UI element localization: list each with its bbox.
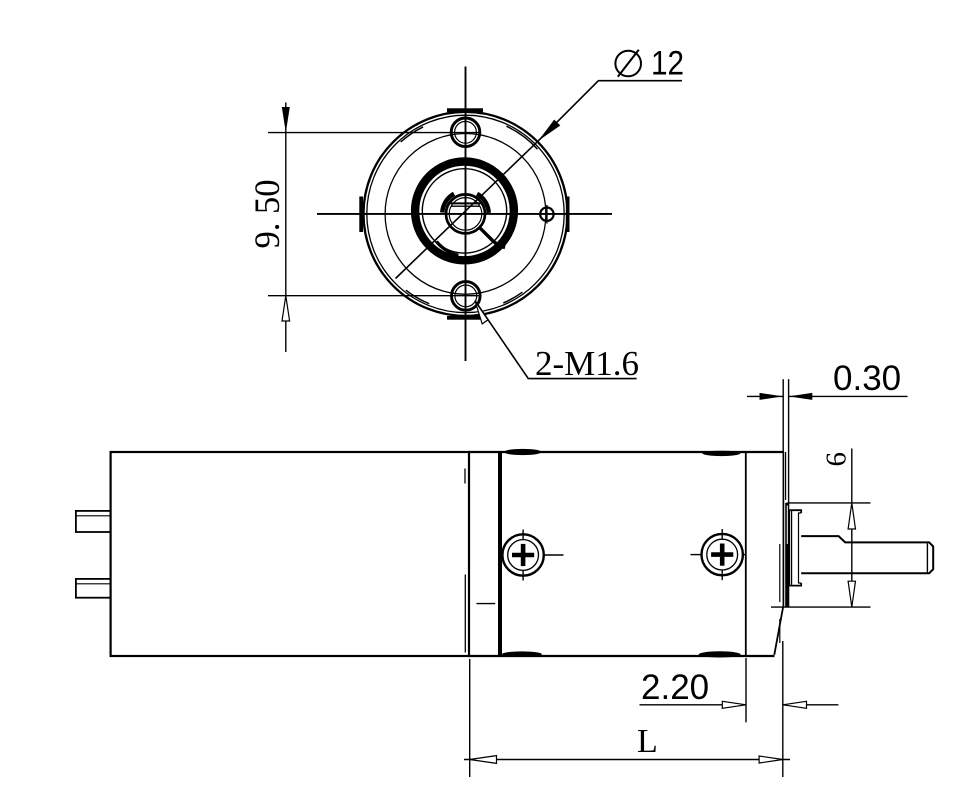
0.30 dim line right [789,395,908,397]
dia6 arrow top (open, up) [848,503,855,529]
screw hole top outer [451,118,480,147]
L arrow right (open) [759,756,783,763]
L ext line left [469,659,471,777]
output shaft outer circle [446,194,485,233]
bolt circle [385,134,546,295]
9.50 dimension line [285,103,287,353]
boss inner line [791,510,793,585]
hidden line segment 2 [779,619,781,643]
shaft end chamfer tick [926,543,928,572]
front face inner line [785,452,787,500]
9.50 extension line bottom [268,295,481,297]
outer case rim circle [367,115,564,312]
front face line [782,452,784,607]
output shaft inner circle [449,198,482,231]
carrier ear arc right [477,194,489,213]
crimp tab north [447,108,483,112]
2.20 ext line [745,658,747,722]
pilot hole right [540,208,553,221]
crimp tab east [566,197,570,233]
2-M1.6 leader line [475,301,637,379]
case split arc upper-right [506,126,537,149]
gearbox bore ring (thick) [415,162,514,261]
svg-text:L: L [637,723,658,760]
gearbox ring inner tick [477,603,496,605]
motor body outline [111,452,469,656]
dia12 leader diagonal through center [396,141,539,279]
pilot hole centerline tick [546,205,548,224]
inner ring [422,169,506,253]
bearing boss [789,510,801,585]
svg-text:9. 50: 9. 50 [247,180,287,249]
dia6 ext line top [788,502,871,504]
L arrow left (filled) [470,756,497,764]
gearbox outline bottom [469,655,775,657]
screw hole bottom outer [452,282,481,311]
dia12 leader arrowhead [538,120,560,141]
shaft D-flat line 1 [451,202,481,204]
svg-text:6: 6 [821,452,853,467]
carrier edge lower-left arc [436,242,458,256]
0.30 arrow left (filled) [760,393,784,400]
case split arc lower-right [503,292,522,303]
screw right outer [702,534,743,575]
crimp lens top-right [702,451,740,456]
2.20 arrow right (open, left) [783,701,807,708]
hidden line segment 1 [779,544,781,602]
dia6 dim line [851,449,853,608]
terminal pin top [76,511,111,532]
motor can seam line bottom [464,575,466,653]
0.30 arrow right (filled) [789,393,813,400]
crimp tab west [359,197,363,233]
front taper line [774,607,783,655]
gearbox front joint line [745,452,747,656]
svg-text:2.20: 2.20 [641,668,709,707]
terminal pin bottom [76,579,111,598]
0.30 ext line left [782,379,784,452]
screw left inner [508,540,539,571]
terminal pin bottom fold line [76,583,111,585]
screw right ticks [721,529,723,539]
dia symbol circle [615,51,641,77]
centerline vertical [465,67,467,362]
output shaft [801,536,933,573]
terminal pin top fold line [76,515,111,517]
0.30 dim line left [747,395,783,397]
2-M1.6 leader arrow (open) [475,301,488,324]
centerline horizontal [317,213,612,215]
dia6 arrow bottom (open, down) [848,581,855,607]
dia6 ext line bottom [771,606,871,608]
crimp lens top-left [504,449,542,455]
crimp tab south [447,316,481,320]
gearbox outline top [469,451,784,453]
case split arc lower-left [406,290,429,304]
screw left ticks [522,530,524,540]
9.50 arrow bottom (open, up) [282,296,290,321]
2.20 arrow left (open, right) [722,701,746,708]
screw hole top inner [455,121,477,143]
carrier edge lower-right line [479,227,505,247]
2.20 dim line left [640,704,747,706]
motor can seam tick top [464,469,466,484]
shaft D-flat line 2 [452,205,480,207]
screw left outer [502,534,543,575]
2.20 dim line right [783,704,839,706]
crimp lens bottom-left [502,651,542,657]
L ext line right [782,641,784,777]
svg-text:12: 12 [651,45,684,83]
carrier ear arc left [442,194,454,213]
L dim line [464,759,790,761]
screw right inner [707,539,738,570]
svg-text:0.30: 0.30 [833,359,901,398]
dia12 leader line [538,81,682,141]
dia symbol slash [618,50,639,77]
9.50 arrow top (filled, down) [282,107,290,133]
svg-text:2-M1.6: 2-M1.6 [535,344,639,383]
9.50 extension line top [268,132,481,134]
outer case circle [364,112,568,316]
crimp lens bottom-right [699,651,741,657]
screw right phillips [711,544,733,566]
washer (dia 6) sliver [785,503,789,608]
case split arc upper-left [401,127,423,142]
gearbox ring thick line [498,452,502,656]
screw hole bottom inner [455,285,477,307]
0.30 ext line right [788,379,790,502]
screw left phillips [512,544,534,566]
